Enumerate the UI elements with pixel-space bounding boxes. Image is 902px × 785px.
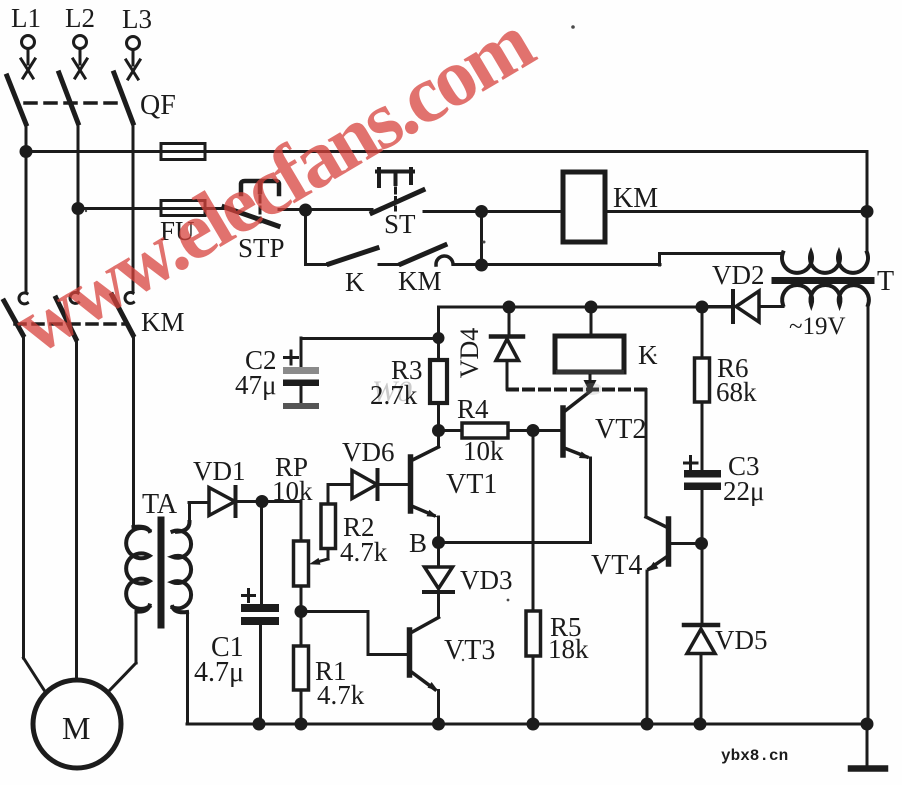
svg-text:KM: KM bbox=[613, 183, 658, 214]
svg-text:R4: R4 bbox=[457, 394, 489, 424]
svg-text:VD4: VD4 bbox=[455, 328, 484, 379]
svg-text:22μ: 22μ bbox=[723, 476, 764, 506]
svg-text:W0: W0 bbox=[372, 375, 412, 408]
svg-text:VD2: VD2 bbox=[712, 260, 765, 290]
svg-text:4.7μ: 4.7μ bbox=[194, 657, 244, 688]
svg-text:L2: L2 bbox=[65, 3, 95, 33]
svg-text:B: B bbox=[409, 528, 427, 558]
svg-text:TA: TA bbox=[142, 489, 178, 520]
svg-text:KM: KM bbox=[398, 266, 442, 296]
svg-text:VD1: VD1 bbox=[193, 456, 246, 486]
svg-text:K: K bbox=[345, 267, 365, 297]
svg-text:10k: 10k bbox=[463, 436, 504, 466]
svg-text:10k: 10k bbox=[272, 476, 313, 506]
svg-text:47μ: 47μ bbox=[235, 370, 276, 400]
svg-text:ST: ST bbox=[384, 209, 416, 239]
svg-text:KM: KM bbox=[141, 307, 185, 337]
svg-text:~19V: ~19V bbox=[789, 313, 846, 340]
svg-text:68k: 68k bbox=[716, 377, 757, 407]
svg-text:VT2: VT2 bbox=[595, 414, 646, 445]
svg-text:T: T bbox=[877, 266, 894, 297]
svg-text:VD6: VD6 bbox=[342, 437, 395, 467]
svg-text:www.elecfans.com: www.elecfans.com bbox=[0, 0, 548, 371]
svg-text:VD3: VD3 bbox=[460, 565, 513, 595]
svg-text:ybx8.cn: ybx8.cn bbox=[721, 747, 788, 765]
svg-text:VT1: VT1 bbox=[446, 469, 497, 500]
svg-text:4.7k: 4.7k bbox=[340, 537, 388, 567]
svg-text:M: M bbox=[62, 710, 90, 746]
svg-text:VT3: VT3 bbox=[444, 635, 495, 666]
svg-text:4.7k: 4.7k bbox=[317, 680, 365, 710]
svg-text:L3: L3 bbox=[122, 4, 152, 34]
svg-text:18k: 18k bbox=[548, 634, 589, 664]
svg-text:L1: L1 bbox=[11, 3, 41, 33]
svg-text:QF: QF bbox=[140, 90, 176, 121]
svg-text:VT4: VT4 bbox=[591, 550, 642, 581]
svg-text:VD5: VD5 bbox=[715, 625, 768, 655]
